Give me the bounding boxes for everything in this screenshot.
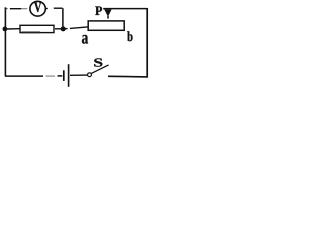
wire: bottom-left horizontal to battery <box>5 75 62 77</box>
voltmeter V <box>30 1 45 16</box>
wire: right junction to rheostat terminal a <box>65 27 87 29</box>
wire: right vertical rail <box>146 8 148 77</box>
switch S blade <box>91 65 108 74</box>
label P <box>95 6 102 15</box>
wire: battery to switch <box>70 74 88 76</box>
wire: left vertical rail <box>4 7 6 76</box>
rheostat P body <box>88 21 124 30</box>
label b <box>127 31 132 41</box>
wire: bottom-right horizontal to switch <box>108 75 148 78</box>
battery short plate <box>63 70 65 81</box>
rheostat wiper arrow <box>104 9 111 18</box>
switch S pivot circle <box>88 73 92 77</box>
wire: resistor to right junction <box>55 28 62 30</box>
junction dot left <box>3 27 8 32</box>
label a <box>82 35 88 44</box>
resistor R <box>20 25 54 32</box>
wire: voltmeter to top-right corner of inner loop <box>45 7 63 9</box>
junction dot right <box>61 26 66 31</box>
wire: top-left corner to voltmeter <box>5 7 27 8</box>
wire: left junction to resistor <box>7 28 20 30</box>
label S <box>94 58 102 66</box>
wire: wiper to top-right <box>103 8 147 10</box>
wire: vertical from corner down to right junction <box>62 8 64 27</box>
battery long plate <box>68 64 70 87</box>
